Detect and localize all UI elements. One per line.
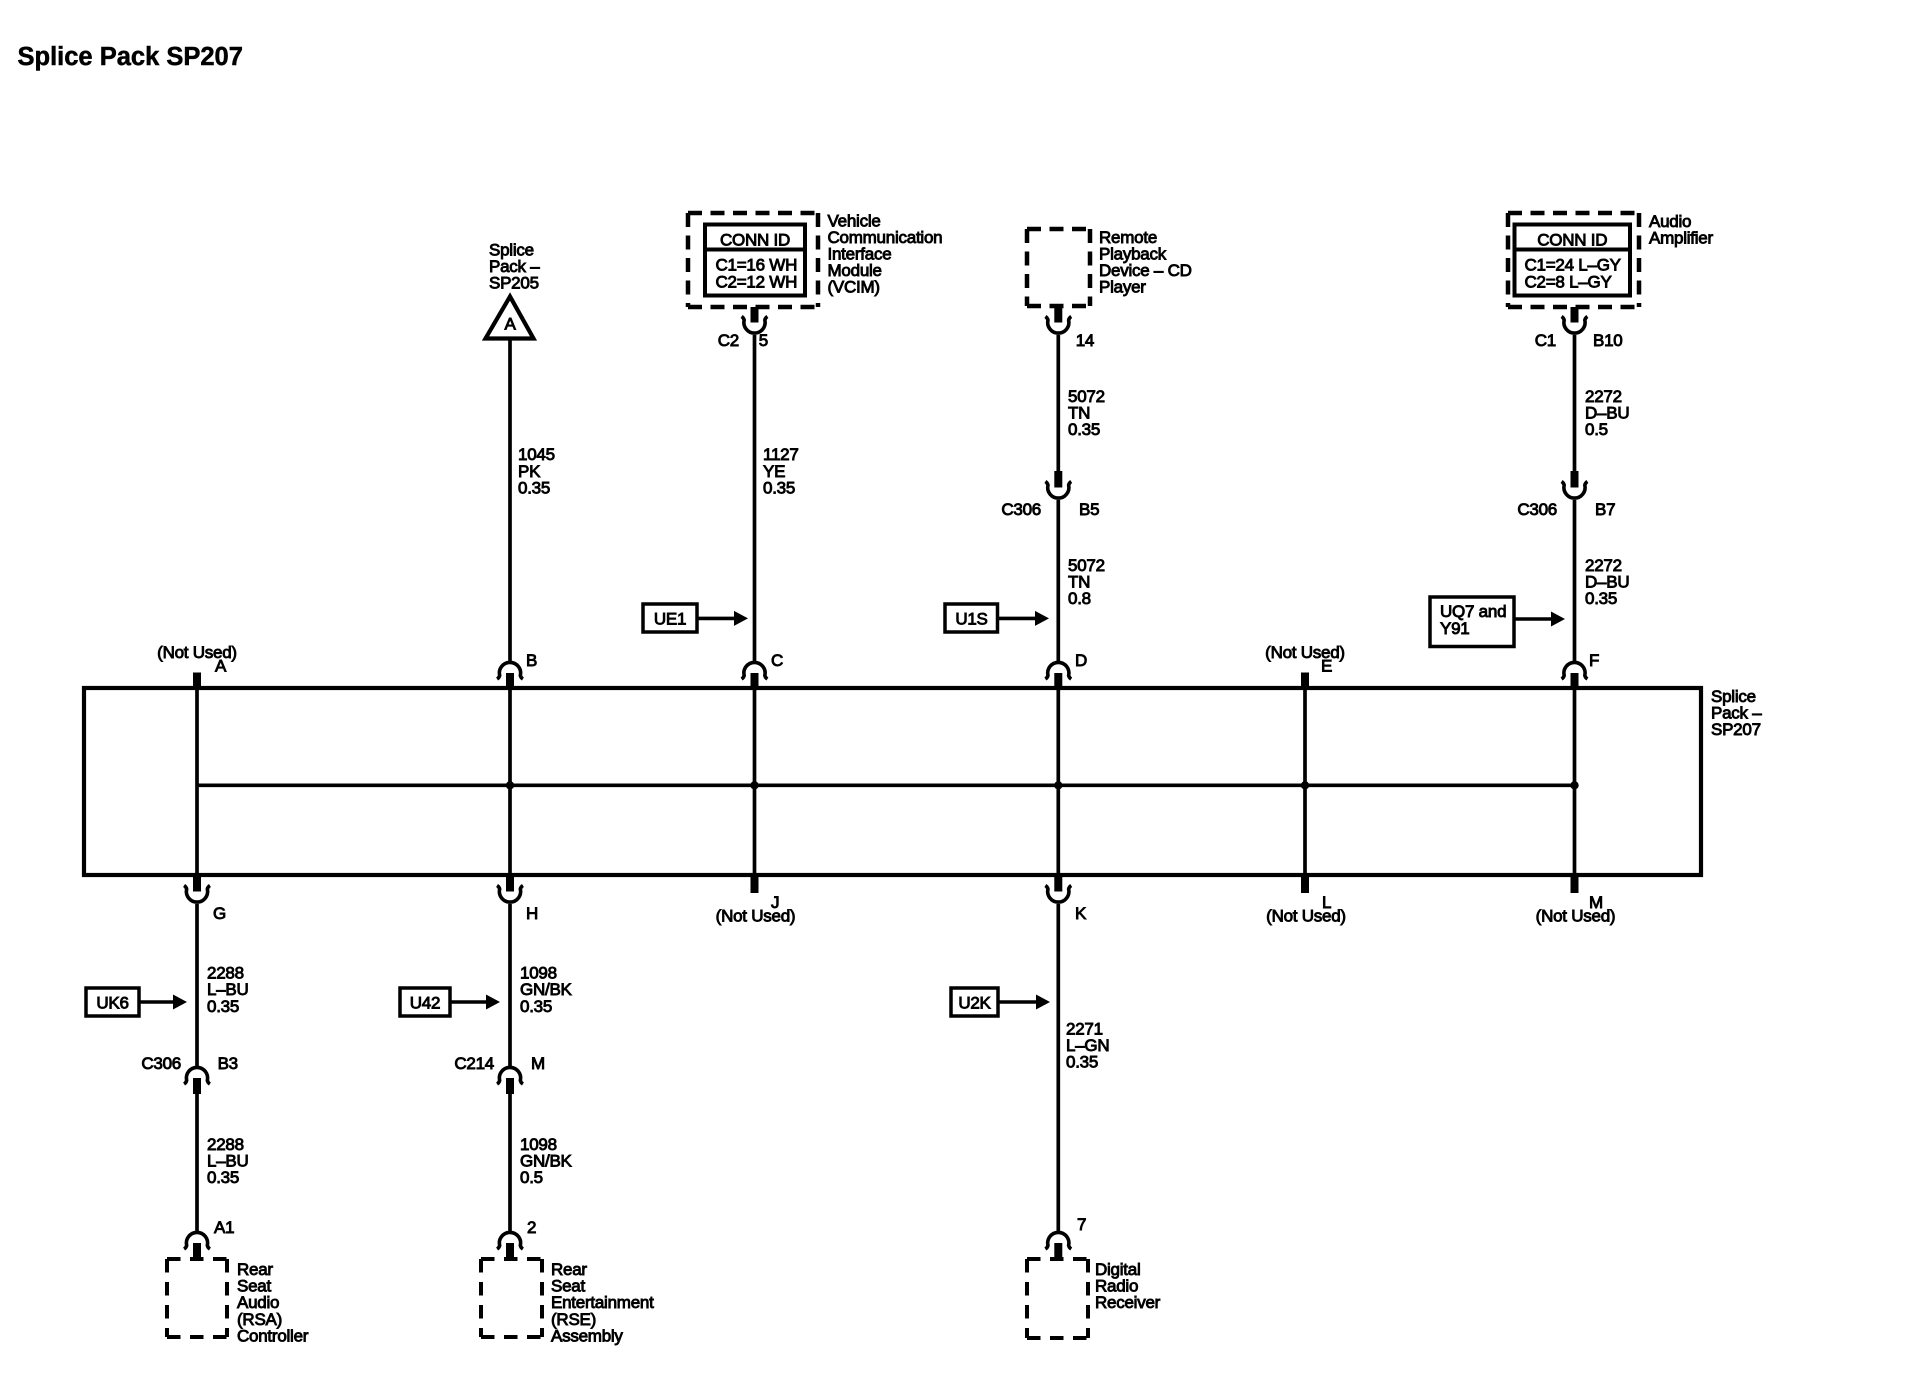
- splice bus line: [197, 783, 1575, 787]
- svg-text:(Not Used): (Not Used): [1536, 907, 1616, 926]
- svg-text:SP207: SP207: [1711, 720, 1761, 739]
- connector C306 B3 cup: [184, 1067, 210, 1084]
- svg-text:0.5: 0.5: [1585, 420, 1608, 439]
- connector amp pin C1-B10 cup: [1562, 317, 1588, 334]
- connector C214 M pin: [506, 1078, 514, 1094]
- connector RSA pin A1 pin: [193, 1243, 201, 1259]
- svg-text:0.35: 0.35: [763, 478, 795, 497]
- svg-text:U1S: U1S: [955, 610, 987, 629]
- svg-text:Splice Pack SP207: Splice Pack SP207: [18, 43, 243, 71]
- module RSE assembly box: [481, 1257, 542, 1261]
- svg-text:B5: B5: [1079, 500, 1099, 519]
- terminal F pin: [1571, 673, 1579, 688]
- svg-text:F: F: [1589, 651, 1599, 670]
- connector VCIM pin C2-5 pin: [751, 307, 759, 323]
- arrow U42 to wire: [450, 1000, 489, 1004]
- svg-text:Player: Player: [1099, 278, 1146, 297]
- svg-text:0.35: 0.35: [1068, 420, 1100, 439]
- terminal G pin: [193, 875, 201, 892]
- connector C214 M cup: [497, 1067, 523, 1084]
- option box UQ7 and Y91: [1430, 597, 1514, 647]
- svg-text:(Not Used): (Not Used): [1266, 907, 1346, 926]
- wire C306 B3 to A1: [195, 1094, 199, 1231]
- svg-text:C2=8 L–GY: C2=8 L–GY: [1525, 273, 1612, 292]
- svg-text:K: K: [1075, 904, 1087, 923]
- connector amp pin C1-B10 pin: [1571, 307, 1579, 323]
- wire C306 to terminal D: [1056, 500, 1060, 661]
- wire H to C214 M: [508, 904, 512, 1066]
- terminal C cup: [742, 662, 768, 679]
- svg-text:E: E: [1321, 657, 1332, 676]
- module VCIM box with CONN ID: [688, 211, 818, 216]
- splice pack SP207 box: [84, 688, 1701, 875]
- connector RSA pin A1 cup: [184, 1232, 210, 1249]
- wire VCIM to terminal C: [753, 335, 757, 661]
- connector DRR pin 7 cup: [1045, 1232, 1071, 1249]
- svg-text:Y91: Y91: [1440, 619, 1470, 638]
- connector CD pin 14 cup: [1045, 317, 1071, 334]
- internal wire B: [508, 688, 512, 875]
- svg-text:B7: B7: [1595, 500, 1615, 519]
- svg-text:14: 14: [1076, 331, 1094, 350]
- svg-text:B3: B3: [218, 1054, 238, 1073]
- svg-text:C306: C306: [1517, 500, 1557, 519]
- internal wire A: [195, 688, 199, 875]
- connector RSE pin 2 pin: [506, 1243, 514, 1259]
- svg-text:UE1: UE1: [654, 610, 686, 629]
- junction dot B: [506, 781, 514, 789]
- svg-text:M: M: [531, 1054, 545, 1073]
- module RSA controller box: [167, 1257, 227, 1261]
- svg-text:A1: A1: [214, 1218, 234, 1237]
- svg-text:SP205: SP205: [489, 274, 539, 293]
- terminal F cup: [1562, 662, 1588, 679]
- terminal K cup: [1045, 886, 1071, 903]
- terminal D pin: [1054, 673, 1062, 688]
- svg-text:H: H: [526, 904, 538, 923]
- svg-text:C306: C306: [1001, 500, 1041, 519]
- arrow U1S to wire: [998, 617, 1039, 621]
- connector C306 B3 pin: [193, 1078, 201, 1094]
- internal wire E: [1303, 688, 1307, 875]
- junction dot C: [750, 781, 758, 789]
- terminal L pin: [1301, 875, 1309, 893]
- connector DRR pin 7 pin: [1054, 1243, 1062, 1259]
- svg-text:CONN ID: CONN ID: [720, 231, 790, 250]
- terminal C pin: [751, 673, 759, 688]
- svg-text:C2=12 WH: C2=12 WH: [716, 273, 798, 292]
- svg-text:5: 5: [759, 331, 768, 350]
- option box U1S: [945, 604, 998, 632]
- svg-text:B: B: [526, 651, 537, 670]
- module digital radio receiver box: [1027, 1257, 1088, 1261]
- svg-text:A: A: [215, 657, 227, 676]
- terminal H cup: [497, 886, 523, 903]
- svg-text:Assembly: Assembly: [551, 1326, 623, 1345]
- svg-text:UK6: UK6: [96, 994, 128, 1013]
- connector CD pin 14 pin: [1054, 306, 1062, 323]
- terminal A pin: [193, 673, 201, 689]
- svg-text:C: C: [771, 651, 783, 670]
- wire C306 to terminal F: [1573, 500, 1577, 661]
- internal wire D: [1056, 688, 1060, 875]
- svg-text:2: 2: [527, 1218, 536, 1237]
- connector C306 B7 pin: [1571, 471, 1579, 488]
- connector RSE pin 2 cup: [497, 1232, 523, 1249]
- svg-text:0.35: 0.35: [1066, 1053, 1098, 1072]
- splice pack SP205 triangle A: [486, 297, 534, 339]
- terminal H pin: [506, 875, 514, 892]
- svg-text:D: D: [1075, 651, 1087, 670]
- terminal B pin: [506, 673, 514, 688]
- svg-text:G: G: [213, 904, 226, 923]
- wire SP205 to terminal B: [508, 339, 512, 662]
- wire CD to C306: [1056, 335, 1060, 471]
- svg-text:C306: C306: [141, 1054, 181, 1073]
- svg-text:0.35: 0.35: [207, 997, 239, 1016]
- wire C214 M to pin 2: [508, 1094, 512, 1231]
- svg-text:0.35: 0.35: [520, 997, 552, 1016]
- svg-text:Amplifier: Amplifier: [1649, 229, 1713, 248]
- svg-text:B10: B10: [1593, 331, 1623, 350]
- terminal M pin: [1571, 875, 1579, 893]
- arrow UK6 to wire: [139, 1000, 176, 1004]
- junction dot F: [1570, 781, 1578, 789]
- junction dot E: [1301, 781, 1309, 789]
- module audio amplifier box with CONN ID: [1508, 211, 1639, 216]
- svg-text:CONN ID: CONN ID: [1537, 231, 1607, 250]
- connector C306 B5 pin: [1054, 471, 1062, 488]
- svg-text:0.35: 0.35: [1585, 589, 1617, 608]
- svg-text:0.35: 0.35: [518, 478, 550, 497]
- connector VCIM pin C2-5 cup: [742, 317, 768, 334]
- svg-text:0.35: 0.35: [207, 1168, 239, 1187]
- svg-text:Controller: Controller: [237, 1326, 309, 1345]
- option box U42: [400, 988, 450, 1016]
- option box UK6: [86, 988, 139, 1016]
- connector C306 B5 cup: [1045, 482, 1071, 499]
- arrow UE1 to wire: [697, 617, 737, 621]
- terminal K pin: [1054, 875, 1062, 892]
- connector C306 B7 cup: [1562, 482, 1588, 499]
- svg-text:(VCIM): (VCIM): [828, 278, 880, 297]
- arrow UQ7 to wire: [1514, 617, 1554, 621]
- terminal B cup: [497, 662, 523, 679]
- svg-text:C2: C2: [718, 331, 739, 350]
- junction dot D: [1054, 781, 1062, 789]
- svg-text:C1: C1: [1535, 331, 1556, 350]
- option box UE1: [643, 604, 697, 632]
- svg-text:Receiver: Receiver: [1095, 1293, 1161, 1312]
- svg-text:C214: C214: [454, 1054, 494, 1073]
- wire G to C306 B3: [195, 904, 199, 1066]
- wire K to pin 7: [1056, 904, 1060, 1231]
- terminal G cup: [184, 886, 210, 903]
- module CD player box: [1027, 227, 1090, 232]
- terminal E pin: [1301, 673, 1309, 689]
- svg-text:0.8: 0.8: [1068, 589, 1091, 608]
- internal wire C: [753, 688, 757, 875]
- svg-text:U42: U42: [410, 994, 440, 1013]
- option box U2K: [951, 988, 998, 1016]
- svg-text:7: 7: [1077, 1215, 1086, 1234]
- svg-text:A: A: [504, 315, 516, 334]
- internal wire F: [1573, 688, 1577, 875]
- svg-text:(Not Used): (Not Used): [716, 907, 796, 926]
- svg-text:0.5: 0.5: [520, 1168, 543, 1187]
- arrow U2K to wire: [998, 1000, 1039, 1004]
- svg-text:U2K: U2K: [958, 994, 991, 1013]
- terminal J pin: [751, 875, 759, 893]
- terminal D cup: [1045, 662, 1071, 679]
- wire amp to C306: [1573, 335, 1577, 471]
- svg-text:(Not Used): (Not Used): [1265, 643, 1345, 662]
